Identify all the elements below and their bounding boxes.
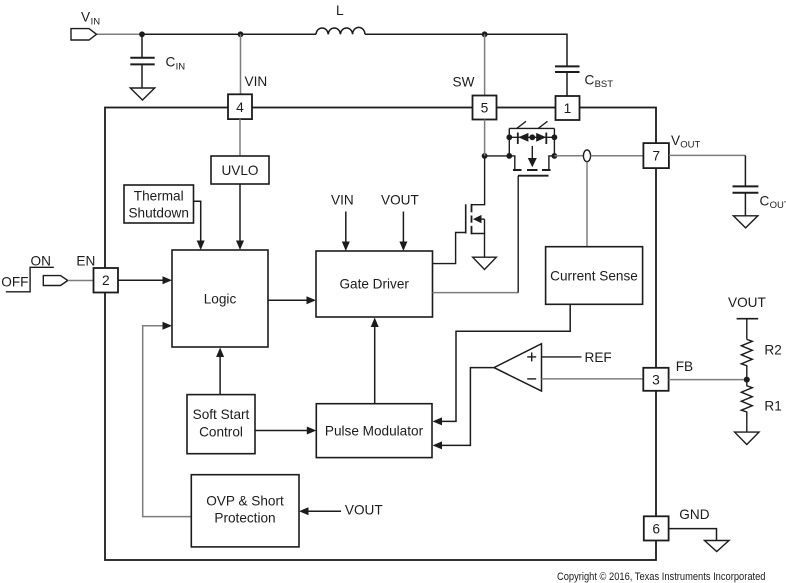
wire: VOUT into OVP with arrow — [299, 507, 341, 515]
svg-text:Thermal: Thermal — [134, 189, 184, 204]
wire: SW rail node segment — [485, 155, 510, 157]
label V_IN — [81, 10, 100, 28]
copyright note — [557, 571, 766, 583]
label SW — [453, 75, 475, 90]
svg-text:OUT: OUT — [770, 200, 786, 211]
gate electrode bar — [465, 204, 467, 233]
svg-text:R2: R2 — [764, 343, 781, 358]
wire: VIN arrow into Gate Driver — [342, 212, 350, 252]
svg-text:7: 7 — [652, 149, 660, 164]
wire: Gate Driver lower output to pass-gate (gray then black up) — [433, 176, 519, 293]
svg-text:3: 3 — [652, 372, 660, 387]
svg-text:Pulse Modulator: Pulse Modulator — [325, 423, 424, 438]
svg-text:FB: FB — [676, 359, 693, 374]
wire: Thermal Shutdown to Logic with arrow — [194, 201, 205, 250]
svg-text:VIN: VIN — [245, 74, 268, 89]
wire: pass FET source rail to current sensor (gray) — [554, 155, 583, 157]
wire: pin 6 to ground — [669, 529, 717, 541]
wire: REF to op-amp — [542, 356, 582, 358]
chip outline — [105, 108, 656, 561]
label VOUT (OVP input) — [345, 502, 383, 517]
wire: pin 3 to divider junction (gray) — [669, 379, 747, 381]
block Pulse Modulator — [316, 404, 432, 458]
ground below CIN — [130, 88, 154, 100]
wire: VIN rail tap down to pin 4 (gray) — [240, 34, 242, 94]
label R1 — [764, 398, 781, 413]
wire: inductor to SW node — [365, 33, 485, 35]
label C_IN — [166, 55, 186, 73]
transistor Q1 pass switch pair (back-to-back body diodes) — [506, 121, 557, 175]
svg-text:IN: IN — [91, 17, 101, 28]
svg-text:1: 1 — [564, 101, 572, 116]
svg-text:6: 6 — [652, 521, 660, 536]
label ON — [31, 254, 51, 269]
source lead — [472, 234, 485, 258]
wire: SW junction down to pin 5 (gray) — [484, 34, 486, 95]
svg-text:Protection: Protection — [214, 511, 275, 526]
svg-text:OFF: OFF — [1, 274, 28, 289]
svg-text:VOUT: VOUT — [728, 295, 766, 310]
wire: Pulse Modulator to Gate Driver with arrow — [371, 318, 379, 404]
inductor L — [316, 27, 365, 34]
resistor R1 — [741, 380, 752, 433]
wire: Soft Start to Pulse Modulator with arrow — [255, 427, 316, 435]
block Soft Start Control — [187, 395, 255, 454]
label VOUT (gate driver input) — [381, 193, 419, 208]
svg-text:R1: R1 — [764, 398, 781, 413]
wire: Logic to Gate Driver with arrow — [268, 296, 316, 304]
wire: Current Sense to Pulse Modulator with arrow — [433, 304, 571, 425]
wire: VOUT arrow into Gate Driver — [399, 212, 407, 252]
svg-text:EN: EN — [76, 254, 95, 269]
capacitor CBST — [555, 66, 580, 96]
label C_BST — [585, 73, 614, 91]
label GND — [679, 507, 709, 522]
node: junction dot at CIN tap — [139, 31, 145, 37]
svg-text:Soft Start: Soft Start — [193, 407, 250, 422]
VOUT supply bar — [737, 319, 759, 340]
node: junction dot at SW top — [482, 31, 488, 37]
wire: sensor down to Current Sense block (gray) — [586, 162, 588, 247]
label EN — [76, 254, 95, 269]
diode row wire — [509, 136, 554, 138]
right vertical — [553, 128, 555, 156]
channel bars — [513, 169, 522, 171]
svg-text:Current Sense: Current Sense — [550, 268, 638, 283]
svg-text:BST: BST — [595, 79, 614, 90]
source/drain leads — [509, 156, 515, 169]
wire: OVP to Logic (gray) with arrow — [143, 322, 192, 517]
terminal EN input flag — [43, 276, 68, 286]
label V_OUT — [671, 133, 701, 151]
block Gate Driver — [316, 251, 433, 317]
svg-text:C: C — [585, 73, 595, 88]
label L — [336, 3, 344, 18]
resistor R2 — [741, 339, 752, 379]
block OVP & Short Protection — [191, 475, 299, 547]
svg-text:C: C — [760, 194, 770, 209]
current sensor ellipse — [583, 150, 590, 162]
label OFF — [1, 274, 28, 289]
terminal VIN input flag — [71, 29, 97, 40]
wire: EN flag to pin 2 (gray) — [68, 280, 94, 282]
svg-text:UVLO: UVLO — [221, 163, 258, 178]
wire: SW junction down to low-side drain — [472, 156, 485, 205]
svg-text:Copyright © 2016, Texas Instru: Copyright © 2016, Texas Instruments Inco… — [557, 571, 766, 583]
wire: Gate Driver upper output to low-side gate — [433, 233, 466, 264]
wire: UVLO to Logic with arrow — [236, 184, 244, 250]
node: junction dot at VIN pin tap — [238, 31, 244, 37]
svg-text:5: 5 — [481, 101, 489, 116]
wire: sensor to pin 7 (gray) — [591, 155, 644, 157]
node dots on SW rail — [506, 153, 512, 159]
op-amp U1 error comparator — [494, 344, 542, 391]
top gate rail — [509, 127, 554, 129]
node: FB divider junction dot — [744, 377, 750, 383]
node dots on diode row — [506, 134, 512, 140]
channel segments — [471, 204, 473, 212]
label VOUT (divider supply) — [728, 295, 766, 310]
ground below COUT — [733, 216, 757, 228]
svg-text:VOUT: VOUT — [345, 502, 383, 517]
svg-text:2: 2 — [102, 273, 110, 288]
svg-text:C: C — [166, 55, 176, 70]
switch tick right — [538, 121, 548, 128]
svg-text:GND: GND — [679, 507, 709, 522]
svg-text:V: V — [671, 133, 680, 148]
capacitor CIN — [130, 34, 154, 88]
svg-text:4: 4 — [236, 100, 244, 115]
ground at GND pin — [705, 541, 730, 552]
block Thermal Shutdown — [124, 185, 194, 223]
svg-text:L: L — [336, 3, 344, 18]
svg-text:ON: ON — [31, 254, 51, 269]
label VIN (gate driver input) — [331, 193, 354, 208]
block UVLO — [211, 156, 269, 184]
svg-text:OUT: OUT — [680, 140, 700, 151]
ground below Q2 — [473, 257, 497, 269]
wire: Soft Start to Logic with arrow — [216, 348, 224, 395]
svg-text:Gate Driver: Gate Driver — [339, 277, 409, 292]
node: junction dot SW column — [482, 153, 488, 159]
block Current Sense — [546, 247, 643, 305]
body diode D2 (points right) — [536, 133, 546, 142]
svg-text:Control: Control — [199, 425, 243, 440]
body diode D1 (points left) — [518, 133, 528, 142]
svg-text:Shutdown: Shutdown — [128, 206, 188, 221]
pin 7 box — [643, 143, 669, 168]
wire: FB to op-amp inverting input (gray) — [542, 378, 644, 380]
svg-text:SW: SW — [453, 75, 475, 90]
wire: pin 5 down to SW junction (gray) — [484, 120, 486, 156]
wire: VIN terminal to CIN node (gray) — [97, 33, 143, 35]
svg-text:OVP & Short: OVP & Short — [206, 494, 284, 509]
label VIN (pin 4 net) — [245, 74, 268, 89]
pin 2 box — [94, 268, 119, 293]
wire: op-amp output to Pulse Modulator with arrow — [433, 368, 495, 450]
svg-text:REF: REF — [585, 350, 612, 365]
pin 5 box — [473, 96, 497, 120]
transistor Q2 low-side NMOS — [466, 204, 485, 257]
EN step waveform ON/OFF — [6, 267, 54, 292]
left vertical — [508, 128, 510, 156]
svg-text:VIN: VIN — [331, 193, 354, 208]
center body arrow down — [531, 146, 533, 159]
gate bar — [518, 175, 549, 177]
block Logic — [172, 250, 268, 347]
pin 4 box — [228, 94, 252, 119]
label C_OUT — [760, 194, 786, 212]
switch tick left — [517, 121, 527, 128]
pin 3 box — [643, 368, 668, 391]
wire: top rail CIN node to inductor — [142, 33, 316, 35]
svg-text:V: V — [81, 10, 90, 25]
label R2 — [764, 343, 781, 358]
body arrow — [479, 218, 485, 220]
wire: pin 2 to Logic with arrow — [118, 276, 172, 284]
label FB — [676, 359, 693, 374]
wire: pin 4 to UVLO (gray) — [239, 119, 241, 156]
capacitor COUT — [733, 155, 759, 215]
wire: SW node to CBST — [485, 34, 567, 66]
svg-text:IN: IN — [176, 62, 186, 73]
pin 1 box — [556, 96, 580, 120]
wire: pin 7 to COUT (gray) — [669, 154, 746, 156]
ground below R1 — [735, 432, 759, 444]
pin 6 box — [644, 516, 669, 540]
svg-text:Logic: Logic — [204, 292, 237, 307]
svg-text:VOUT: VOUT — [381, 193, 419, 208]
label REF — [585, 350, 612, 365]
